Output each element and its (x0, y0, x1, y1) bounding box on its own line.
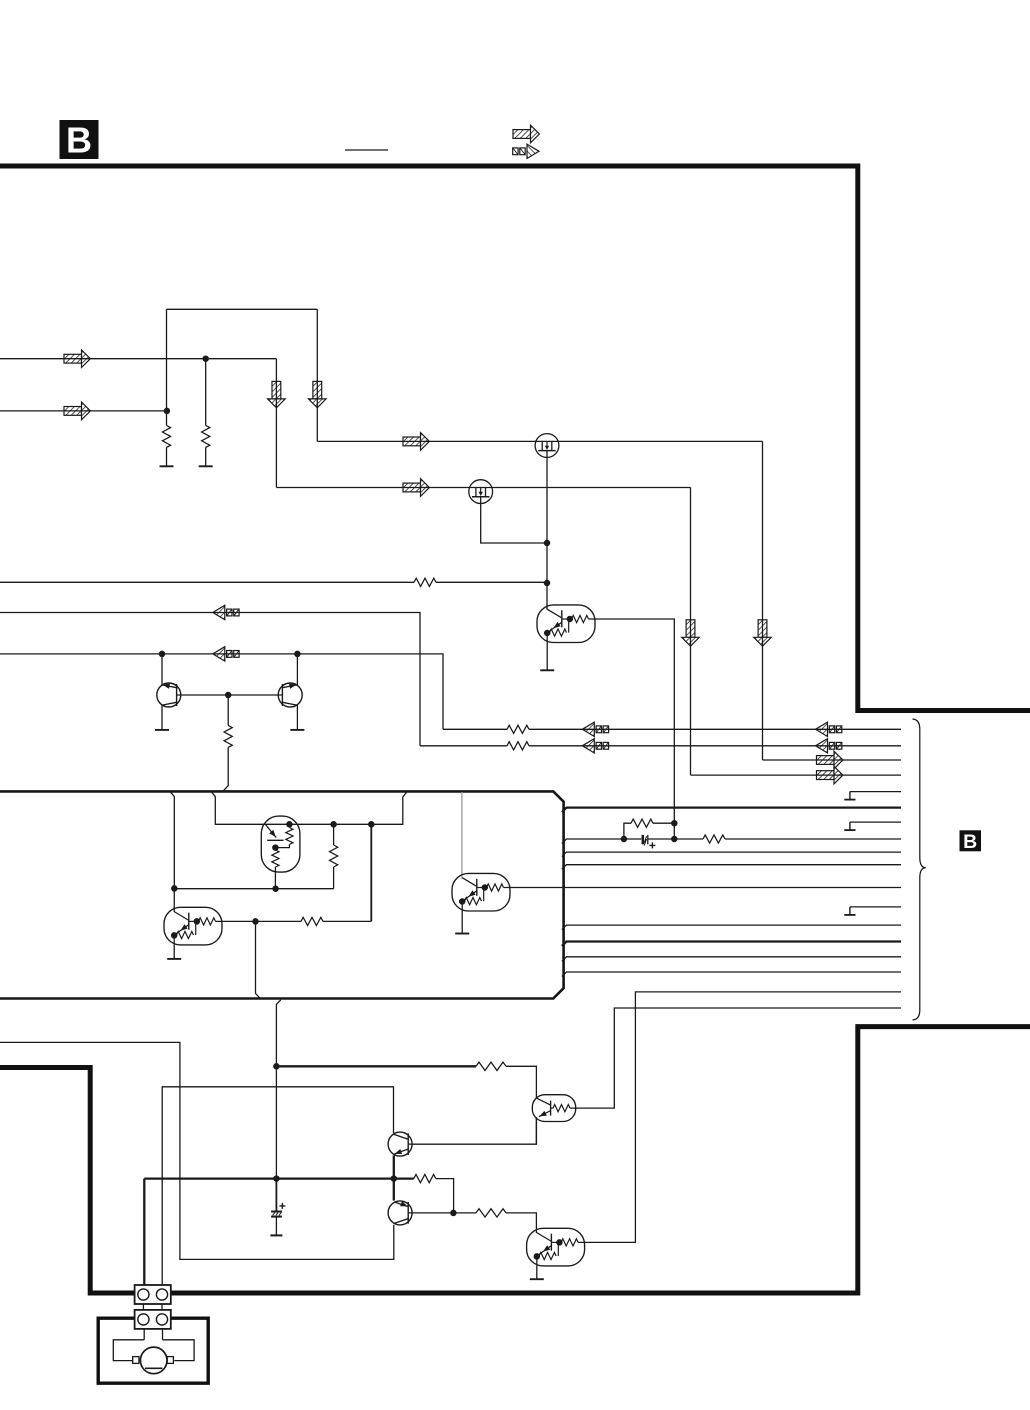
svg-text:B: B (66, 120, 92, 161)
svg-text:B: B (963, 831, 977, 853)
